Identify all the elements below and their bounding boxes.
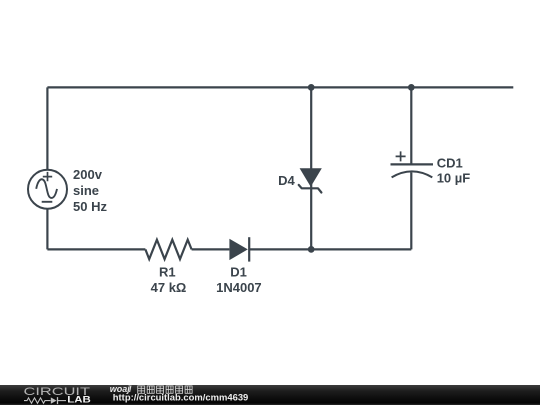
svg-text:1N4007: 1N4007 [216, 280, 262, 295]
svg-text:CD1: CD1 [437, 156, 463, 171]
svg-text:D1: D1 [230, 264, 247, 279]
svg-text:50 Hz: 50 Hz [73, 199, 107, 214]
wire: CD1 top lead from top rail [410, 87, 412, 164]
footer bar [0, 385, 540, 405]
wire: left vertical from source plus terminal to top rail [46, 87, 48, 170]
voltage source V1 [28, 170, 67, 209]
CircuitLab logo resistor zigzag [24, 398, 51, 403]
junction dot: bottom rail at D4 [308, 246, 315, 253]
svg-text:LAB: LAB [67, 394, 91, 405]
wire: top rail net [47, 86, 513, 88]
svg-text:R1: R1 [159, 264, 176, 279]
svg-text:http://circuitlab.com/cmm4639: http://circuitlab.com/cmm4639 [113, 393, 249, 403]
svg-text:D4: D4 [278, 173, 295, 188]
svg-text:10 µF: 10 µF [437, 170, 471, 185]
footer title hanzi glyphs [138, 386, 192, 393]
zener diode D4 [299, 168, 322, 192]
diode D1 [229, 237, 249, 261]
capacitor CD1 [391, 151, 434, 177]
wire: resistor to diode D1 anode [192, 248, 230, 250]
junction dot: top rail at D4 [308, 84, 315, 91]
svg-text:47 kΩ: 47 kΩ [151, 280, 187, 295]
wire: diode D1 cathode to bottom rail right segment [249, 248, 411, 250]
wire: bottom rail from source corner to resistor R1 [47, 248, 145, 250]
wire: CD1 bottom lead down to bottom rail corner [410, 173, 412, 250]
wire: zener D4 vertical branch [310, 87, 312, 249]
wire: source minus terminal down to bottom rail [46, 209, 48, 250]
svg-text:200v: 200v [73, 167, 103, 182]
CircuitLab logo diode symbol [51, 397, 66, 404]
svg-text:sine: sine [73, 183, 99, 198]
junction dot: top rail at CD1 [408, 84, 415, 91]
resistor R1 [145, 240, 191, 259]
